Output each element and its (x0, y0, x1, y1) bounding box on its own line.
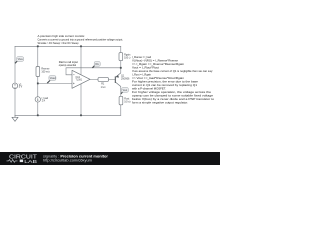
wire feedback (66, 68, 121, 75)
svg-text:A precision high side current: A precision high side current monitor. (38, 34, 86, 38)
svg-text:below V(bus) by a zener diode: below V(bus) by a zener diode and a PNP … (132, 97, 215, 101)
wire bottom rail (15, 114, 121, 116)
svg-text:Vout: Vout (123, 89, 128, 92)
svg-text:form a simple negative output: form a simple negative output regulator. (132, 101, 188, 105)
svg-text:For higher voltage operation,: For higher voltage operation, the voltag… (132, 90, 212, 94)
current source I1 I_load (35, 97, 40, 102)
svg-text:opamp can be clamped to some s: opamp can be clamped to some suitable fi… (132, 94, 214, 98)
watermark text (43, 153, 108, 162)
ground (12, 115, 18, 121)
svg-text:=> Vout = I_load*Rsense*Rout/R: => Vout = I_load*Rsense*Rout/Rgain (132, 76, 185, 80)
node flag Vout (121, 88, 129, 94)
svg-text:10 kΩ: 10 kΩ (124, 101, 131, 104)
CircuitLab logo (7, 154, 38, 164)
svg-text:Converts a current to ground i: Converts a current to ground into a grou… (38, 38, 124, 42)
svg-text:V(Vbus)−V(RG) = I_Rsense*Rsens: V(Vbus)−V(RG) = I_Rsense*Rsense (132, 59, 179, 63)
resistor Rgain (119, 53, 123, 61)
svg-text:=> I_Rgain = I_Rsense*Rsense/R: => I_Rgain = I_Rsense*Rsense/Rgain (132, 62, 185, 66)
node flag Vload (47, 76, 56, 84)
svg-text:Vbus: Vbus (18, 59, 24, 61)
svg-text:http://circuitlab.com/c6kyum: http://circuitlab.com/c6kyum (43, 159, 92, 163)
wire +input (38, 82, 72, 84)
svg-text:1 kΩ: 1 kΩ (101, 86, 106, 89)
node flag RG (92, 62, 100, 68)
wire Rsense column (37, 46, 39, 115)
svg-text:RG: RG (95, 64, 99, 66)
svg-text:with a P-channel MOSFET.: with a P-channel MOSFET. (132, 87, 166, 91)
op-amp OA1 (72, 70, 90, 88)
wire opamp V+ riser (80, 46, 82, 75)
svg-text:Simulate > DC Sweep > Run DC S: Simulate > DC Sweep > Run DC Sweep (38, 41, 79, 45)
wire output to R1 to base (90, 78, 115, 80)
svg-text:If we assume the base current: If we assume the base current of Q1 is n… (132, 69, 213, 73)
wire Rgain column (120, 46, 122, 73)
wire top rail Vbus (15, 45, 121, 47)
svg-text:100 mΩ: 100 mΩ (41, 71, 50, 74)
watermark bar (0, 152, 220, 165)
svg-text:I_Rsense = I_load: I_Rsense = I_load (132, 55, 152, 59)
resistor R1 (98, 78, 109, 82)
svg-text:opamp essential: opamp essential (59, 64, 77, 67)
svg-text:current in Q1 can be removed b: current in Q1 can be removed by replacin… (132, 83, 198, 87)
svg-text:I_Rout = I_Rgain: I_Rout = I_Rgain (132, 73, 152, 77)
resistor Rsense (36, 67, 40, 77)
wire opamp V- drop (80, 84, 82, 115)
notes text block (132, 55, 215, 104)
svg-text:LAB: LAB (24, 159, 37, 164)
svg-text:100 Ω: 100 Ω (124, 57, 131, 60)
resistor Rout (119, 96, 123, 105)
node junction dots (37, 45, 122, 116)
svg-text:Vload: Vload (50, 78, 57, 80)
svg-text:Vout = I_Rout*Rout: Vout = I_Rout*Rout (132, 66, 159, 70)
svg-text:1 A: 1 A (42, 100, 46, 103)
svg-text:For higher precision, the erro: For higher precision, the error due to t… (132, 80, 199, 84)
svg-text:5 V: 5 V (19, 86, 23, 89)
svg-text:2N3906: 2N3906 (121, 77, 130, 80)
wire left column V1 (14, 46, 16, 115)
svg-text:TL081: TL081 (76, 80, 83, 82)
wire collector to Rout (120, 87, 122, 116)
transistor Q1 2N3906 (114, 76, 116, 83)
schematic description text (38, 34, 124, 45)
node flag Vbus (15, 57, 24, 64)
annotation: rail to rail note (59, 61, 79, 67)
voltage source V1 (12, 83, 17, 88)
